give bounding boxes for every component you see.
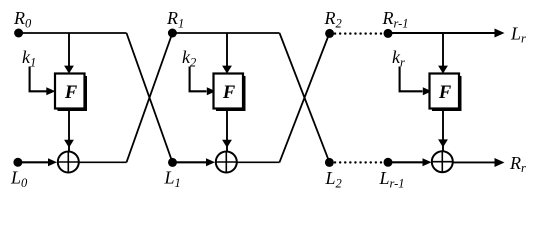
svg-text:Rr: Rr [509, 153, 526, 175]
svg-text:F: F [438, 83, 452, 103]
node Lr-1 [384, 158, 393, 167]
wire L1 into XOR2 [173, 158, 216, 166]
svg-text:Lr-1: Lr-1 [379, 168, 405, 191]
node R1 [168, 29, 177, 38]
wire F1 to XOR1 [64, 109, 74, 151]
dotted wire R2 to Rr-1 [335, 32, 384, 34]
wire XOR3 out to output Rr [453, 158, 504, 167]
wire XOR2 out bottom rail [237, 161, 279, 163]
wire cross diagonal up round 2 [280, 33, 330, 162]
svg-text:k2: k2 [182, 47, 196, 70]
node L0 [13, 158, 22, 167]
svg-text:L0: L0 [10, 168, 28, 191]
wire top rail round 1 [19, 32, 127, 34]
XOR X1 [58, 152, 79, 173]
wire Lr-1 into XOR3 [388, 158, 432, 166]
node R2 [325, 29, 334, 38]
svg-text:F: F [64, 83, 78, 103]
wire F3 to XOR3 [438, 109, 448, 151]
node L1 [168, 158, 177, 167]
svg-text:L2: L2 [325, 168, 342, 191]
wire k1 into F1 [30, 67, 56, 96]
XOR X3 [432, 151, 453, 172]
svg-text:k1: k1 [22, 47, 36, 70]
svg-text:R2: R2 [324, 8, 342, 31]
wire cross diagonal down round 2 [280, 33, 330, 162]
F box U3 [430, 74, 462, 112]
wire XOR1 out bottom rail [79, 161, 126, 163]
node Rr-1 [384, 29, 393, 38]
svg-text:F: F [222, 83, 236, 103]
svg-text:R1: R1 [166, 8, 184, 31]
wire cross diagonal down round 1 [127, 33, 173, 162]
node L2 [325, 158, 334, 167]
wire top rail round r to output Lr [388, 29, 505, 38]
wire F2 to XOR2 [222, 109, 232, 151]
wire cross diagonal up round 1 [127, 33, 173, 162]
svg-text:kr: kr [392, 47, 405, 70]
wire branch into F1 [64, 33, 74, 74]
wire top rail round 2 [172, 32, 279, 34]
svg-text:R0: R0 [13, 8, 32, 31]
dotted wire L2 to Lr-1 [335, 161, 384, 163]
svg-text:Rr-1: Rr-1 [382, 8, 409, 31]
svg-text:Lr: Lr [510, 24, 526, 46]
wire branch into F3 [438, 33, 448, 74]
node R0 [14, 29, 23, 38]
XOR X2 [216, 152, 237, 173]
wire k2 into F2 [190, 67, 216, 96]
wire kr into F3 [400, 67, 432, 96]
wire L0 into XOR1 [18, 158, 57, 166]
F box U1 [55, 74, 87, 112]
wire branch into F2 [222, 33, 232, 74]
F box U2 [214, 74, 246, 112]
svg-text:L1: L1 [164, 168, 181, 191]
